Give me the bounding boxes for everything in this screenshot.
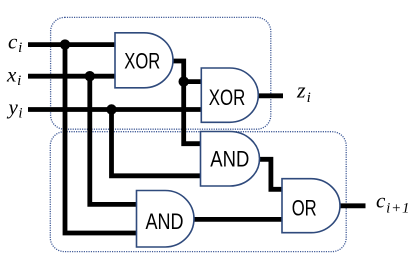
wire: y_i input line to XOR2 bbox=[28, 107, 202, 112]
svg-text:XOR: XOR bbox=[124, 49, 160, 74]
wire: x_i branch down to AND2 upper input bbox=[90, 74, 137, 204]
wire: x_i input line bbox=[28, 74, 115, 79]
svg-text:XOR: XOR bbox=[209, 85, 246, 110]
wire: XOR2 output to z_i bbox=[258, 93, 283, 98]
node: junction dot on c_i line bbox=[60, 39, 70, 49]
wire: AND2 output to OR lower input bbox=[193, 217, 283, 222]
gate: XOR U2 (sum output) bbox=[201, 68, 258, 122]
svg-text:AND: AND bbox=[146, 209, 184, 234]
gate: AND U3 (upper AND) bbox=[201, 132, 260, 187]
wire: y_i branch down to AND1 lower input bbox=[112, 107, 202, 176]
gate: OR U5 (carry output) bbox=[282, 179, 340, 233]
node: junction dot on XOR1 output branch bbox=[179, 76, 189, 86]
gate: XOR U1 (top) bbox=[115, 33, 173, 88]
svg-text:OR: OR bbox=[292, 196, 317, 221]
wire: c_i input line bbox=[28, 42, 115, 47]
node: junction dot on x_i line bbox=[85, 71, 95, 81]
wire: c_i branch down to AND2 lower input bbox=[65, 42, 137, 233]
node: junction dot on y_i line bbox=[106, 104, 116, 114]
dotted group box: carry stage bbox=[50, 132, 346, 252]
wire: XOR1 output to XOR2 input and down to AND1 bbox=[172, 61, 201, 144]
svg-text:AND: AND bbox=[210, 147, 249, 172]
gate: AND U4 (lower AND) bbox=[137, 191, 194, 248]
wire: AND1 output elbow to OR upper input bbox=[259, 159, 283, 189]
wire: OR output to c_i+1 bbox=[340, 203, 366, 208]
dotted group box: sum stage bbox=[51, 17, 271, 129]
wire: XOR1 output junction to XOR2 upper input bbox=[184, 79, 202, 84]
